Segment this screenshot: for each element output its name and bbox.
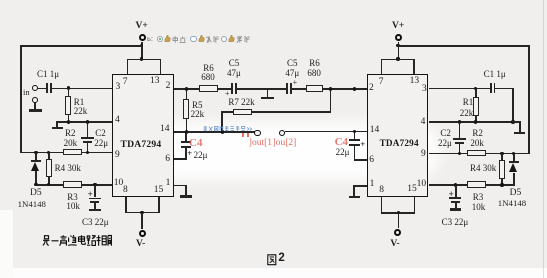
wire right rail vertical [528, 45, 530, 153]
watermark radio 3 [221, 36, 227, 42]
resistor R7 wire rise right [330, 89, 332, 113]
pin 8 number (right IC) [379, 186, 384, 196]
capacitor C4 (right) plate A [349, 139, 360, 141]
capacitor C3 (right) plate A [449, 197, 461, 199]
capacitor C4 (right) plate B [349, 144, 360, 146]
junction R4 bottom (left) [47, 183, 50, 186]
watermark thumb icon 1 [164, 35, 171, 43]
label 22k (left R5) [191, 110, 205, 119]
wire pin7-13 loop top (left IC) [127, 59, 162, 61]
resistor R1 (right) bottom stub [475, 116, 477, 123]
junction R5 top (right) [353, 87, 356, 90]
label out2 (red watermark) [273, 139, 297, 149]
junction R7 drop on out1 line [221, 130, 224, 133]
capacitor C2 (right) top stub [459, 122, 461, 138]
label 10k (right) [472, 203, 486, 212]
label R6 (right) [309, 59, 320, 68]
capacitor C4 (left) plus sign [187, 149, 192, 158]
capacitor C5 (left) plate A [231, 83, 233, 94]
label D5 (right) [510, 189, 522, 199]
ground (pin4 left) bar [52, 127, 63, 130]
wire out2 line to pin14 (right) [285, 131, 368, 133]
watermark radio selected (neutral) [157, 36, 163, 42]
V- terminal (right) [394, 229, 401, 236]
input terminal lower circle [32, 97, 38, 103]
wire C1 corner drop (right) [512, 88, 514, 123]
resistor R7 wire horizontal [221, 111, 331, 113]
ground (pin1 right) bar [349, 196, 360, 199]
capacitor C3 (right) top stub [455, 185, 457, 197]
ground (pin1 left) bar [180, 195, 191, 198]
ground (C3 left) bar [89, 209, 101, 212]
watermark rating row colon [147, 35, 153, 43]
capacitor C5 (right) plate B [290, 83, 292, 94]
pin 6 number (right IC) [369, 156, 374, 166]
pin 3 number (right IC) [422, 85, 427, 95]
resistor R2 (left) body [63, 149, 82, 155]
pin 8 number (left IC) [123, 186, 128, 196]
wire pin13 drop (right IC) [413, 59, 415, 75]
wire pin13 drop (left IC) [160, 59, 162, 75]
wire V+ right stub down [398, 42, 400, 60]
wire pin2 line (left) [174, 88, 232, 90]
wire pin7 drop (left IC) [127, 59, 129, 75]
label C5 (left) [229, 59, 240, 68]
junction V- (right) [397, 211, 400, 214]
capacitor C2 (left) plate A [81, 137, 94, 139]
label C2 (right) [440, 129, 451, 138]
pin 9 number (left IC) [115, 151, 120, 161]
scan artifact faint right edge line [543, 0, 544, 278]
label R1 (right) [463, 98, 474, 107]
ground (pin4 right) bar [514, 132, 526, 135]
label C5 (right) [287, 59, 298, 68]
resistor R6 (right) body [306, 85, 323, 92]
pin 2 number (left IC) [166, 82, 171, 92]
capacitor C2 (right) plate A [453, 138, 466, 140]
label 22u (left C4) [194, 151, 208, 160]
label TDA7294 (right) [380, 139, 419, 148]
junction pins7-13 loop left [140, 57, 143, 60]
background left white strip [0, 210, 13, 278]
label 680 (right) [307, 69, 321, 78]
capacitor C3 (left) plate B [90, 201, 99, 203]
resistor R3 (left) body [63, 181, 82, 187]
wire pin8 drop (left IC bottom loop) [125, 197, 127, 214]
junction C3 top (left) [93, 183, 96, 186]
pin 1 number (right IC) [370, 180, 375, 190]
resistor R4 (left) top stub [48, 153, 50, 160]
wire pin4 line (left) [56, 121, 112, 123]
label R3 (right) [473, 193, 484, 202]
wire C5 right to pin2 right [292, 88, 367, 90]
junction D5 top (left) [34, 151, 37, 154]
junction C2 top on pin4 line [86, 120, 89, 123]
pin 2 number (right IC) [369, 84, 374, 94]
resistor R1 (left) bottom stub [68, 115, 70, 122]
junction R1 bottom on pin4 line [67, 120, 70, 123]
resistor R5 (left) top stub [186, 89, 188, 100]
pin 15 number (left IC) [154, 186, 164, 196]
input terminal "in" upper circle [32, 85, 38, 91]
background center white wash [148, 122, 440, 180]
wire input to C1 [38, 88, 47, 90]
wire C4 to pin6 (left) [174, 158, 187, 160]
diode D5 (left) bottom stub [35, 171, 37, 185]
label C1 1u (right) [484, 70, 506, 79]
label R7 22k [228, 98, 254, 107]
capacitor C3 (left) plate A [89, 198, 101, 200]
pin 9 number (right IC) [421, 150, 426, 160]
wire pin7 drop (right IC) [381, 59, 383, 75]
resistor R7 body [233, 109, 252, 116]
wire bottom loop horizontal (right IC) [381, 212, 416, 214]
ground (pin4 right) drop [519, 121, 521, 132]
pin 14 number (right IC) [370, 126, 380, 136]
wire pin4 line (right) [429, 121, 514, 123]
op-amp U1 TDA7294 (left IC) [112, 74, 174, 197]
junction R4 top (right) [500, 152, 503, 155]
resistor R4 (left) bottom stub [48, 177, 50, 185]
wire C1 to pin3 (left) [52, 88, 112, 90]
capacitor C3 (left) plus sign [88, 190, 93, 199]
watermark thumb icon 2 [198, 35, 205, 43]
label C4 red watermark (right) [335, 137, 348, 148]
junction C3 top (right) [454, 183, 457, 186]
capacitor C5 (right) plus sign [293, 79, 298, 87]
capacitor C3 (left) bottom stub [94, 203, 96, 209]
label C4 red watermark (left) [189, 138, 202, 149]
diode D5 (right) triangle [509, 163, 517, 172]
note: other channel identical (CJK approx) [42, 235, 112, 247]
op-amp U2 TDA7294 (right IC) [367, 74, 428, 197]
junction R1 top (right) [474, 87, 477, 90]
watermark blue link text (CJK approx) [203, 126, 253, 132]
resistor R6 (left) body [199, 85, 218, 92]
ground (input) [29, 109, 42, 112]
V+ terminal (left) [139, 34, 146, 41]
label R6 (left) [203, 64, 214, 73]
capacitor C4 (left) bottom stub [185, 148, 187, 159]
pin 1 number (left IC) [166, 179, 171, 189]
label 20k (left) [64, 139, 78, 148]
junction input node R1 top (left) [67, 86, 70, 89]
watermark text bad (CJK approx) [236, 36, 250, 43]
label 22u (left) [94, 139, 108, 148]
label D5 (left) [30, 189, 42, 199]
label 20k (right) [470, 139, 484, 148]
ground (center) bar [261, 97, 274, 100]
capacitor C3 (left) top stub [94, 185, 96, 197]
V- terminal (left) [139, 230, 146, 237]
label R1 22k (left) [74, 98, 88, 116]
capacitor C4 (left) plate A [181, 141, 192, 143]
wire pin15 drop (left IC bottom loop) [158, 197, 160, 214]
label V- (left) [136, 240, 145, 250]
label in [23, 88, 30, 97]
wire top rail right [398, 45, 530, 47]
junction C2 top (right) [458, 120, 461, 123]
junction pins7-13 loop right [396, 57, 399, 60]
junction V- (left) [140, 211, 143, 214]
resistor R5 (left) body [183, 99, 189, 120]
resistor R3 (right) body [467, 181, 486, 187]
wire C1 right to corner [495, 88, 513, 90]
pin 4 number (left IC) [115, 116, 120, 126]
pin 10 number (right IC) [417, 180, 427, 190]
wire pin15 drop (right IC bottom loop) [414, 197, 416, 213]
capacitor C2 (right) plate B [455, 142, 464, 144]
capacitor C1 (right) plate B [494, 83, 496, 94]
label C1 1u (left) [37, 70, 59, 79]
wire center ground to C5 right [268, 88, 286, 90]
junction C2 bottom (right) [458, 152, 461, 155]
V+ label (right) [392, 22, 404, 32]
wire pin9 line (left) [20, 152, 112, 154]
resistor R4 (right) body [499, 160, 505, 179]
ground (pin4 left) stub [56, 121, 58, 127]
junction C4 top (left) [185, 130, 188, 133]
watermark text neutral (CJK approx) [172, 36, 186, 43]
diode D5 (left) top stub [35, 153, 37, 160]
capacitor C1 (left) plate B [50, 83, 52, 94]
pin 4 number (right IC) [421, 118, 426, 128]
watermark text good (CJK approx) [205, 36, 219, 43]
diode D5 (left) cathode bar [31, 160, 41, 162]
capacitor C5 (left) plus sign [225, 90, 230, 98]
wire out1 line from pin14 (left) [174, 131, 255, 133]
junction C1 corner (right) [511, 120, 514, 123]
resistor R1 (right) body [473, 97, 479, 117]
capacitor C2 (left) top stub [87, 122, 89, 137]
capacitor C3 (right) plate B [451, 201, 460, 203]
label 1N4148 (right) [498, 199, 526, 208]
junction R1 bottom (right) [474, 120, 477, 123]
junction R4 bottom (right) [500, 183, 503, 186]
label R2 (left) [65, 129, 76, 138]
pin 7 number (right IC) [379, 78, 384, 88]
capacitor C2 (right) bottom stub [459, 144, 461, 154]
background bottom white strip [0, 268, 547, 278]
pin 13 number (left IC) [150, 77, 160, 87]
label R2 (right) [472, 129, 483, 138]
capacitor C1 (left) plate A [46, 83, 48, 94]
label 47u (left) [227, 69, 241, 78]
resistor R5 (left) bottom stub [186, 119, 188, 133]
capacitor C3 (right) plus sign [449, 190, 454, 199]
label 47u (right) [285, 69, 299, 78]
capacitor C5 (left) plate B [235, 83, 237, 94]
label C3 22u (right) [442, 218, 469, 227]
junction V+ right rail [396, 44, 399, 47]
pin 15 number (right IC) [407, 185, 417, 195]
junction V+ left rail [140, 44, 143, 47]
label V- (right) [390, 240, 399, 250]
watermark radio 2 [190, 36, 196, 42]
wire left rail vertical [20, 45, 22, 153]
pin 14 number (left IC) [160, 125, 170, 135]
wire V+ left stub down [141, 42, 143, 60]
junction R4 top (left) [47, 151, 50, 154]
wire C5 to center ground (left) [237, 88, 268, 90]
pin 6 number (left IC) [165, 155, 170, 165]
capacitor C1 (right) plate A [490, 83, 492, 94]
wire pin3 line (right) [429, 88, 491, 90]
diode D5 (left) triangle [31, 162, 39, 171]
resistor R4 (right) bottom stub [501, 178, 503, 185]
capacitor C4 (right) plus sign [360, 140, 365, 149]
pin 7 number (left IC) [123, 78, 128, 88]
capacitor C3 (right) bottom stub [455, 203, 457, 209]
wire pin9 line (right) [429, 153, 530, 155]
V+ label (left) [136, 22, 148, 32]
terminal out1 [254, 130, 260, 136]
figure caption number 2 [278, 253, 284, 265]
wire top rail left [20, 45, 142, 47]
capacitor C4 (right) top stub [354, 132, 356, 140]
resistor R4 (right) top stub [501, 154, 503, 161]
wire bottom loop horizontal (left IC) [125, 212, 160, 214]
ground (pin1 left) drop [185, 185, 187, 196]
wire pin1 (left IC) to ground [174, 185, 187, 187]
ground (C3 right) bar [450, 208, 461, 211]
diode D5 (right) top stub [513, 154, 515, 162]
ground (center) stub [267, 89, 269, 97]
label R4 30k (left) [55, 164, 81, 173]
capacitor C4 (left) plate B [181, 146, 192, 148]
wire pin1 (right IC) to ground [354, 185, 367, 187]
resistor R7 wire drop left [221, 111, 223, 132]
label C2 (left) [95, 129, 106, 138]
watermark thumb icon 3 [228, 35, 235, 43]
capacitor C2 (left) plate B [83, 141, 92, 143]
capacitor C2 (left) bottom stub [87, 143, 89, 153]
figure caption 图2 (CJK approx + 2) [267, 254, 277, 266]
label 22k (right R1) [460, 109, 474, 118]
label 22u (right C2) [438, 139, 452, 148]
ground (pin4 right) stub [512, 121, 520, 123]
capacitor C4 (left) top stub [185, 133, 187, 142]
junction D5 top (right) [512, 152, 515, 155]
pin 13 number (right IC) [410, 77, 420, 87]
wire V- stub (left) [141, 213, 143, 229]
wire pin7-13 loop top (right IC) [381, 59, 415, 61]
junction R5 top (left) [185, 87, 188, 90]
junction C2 bottom (left) [86, 151, 89, 154]
wire pin10 line (right) [429, 184, 515, 186]
label C3 22u (left) [82, 218, 109, 227]
diode D5 (right) bottom stub [513, 173, 515, 186]
junction D5 bottom (left) [34, 183, 37, 186]
junction R7 corner (right pin2) [329, 87, 332, 90]
label 680 (left) [201, 73, 215, 82]
wire pin8 drop (right IC bottom loop) [381, 197, 383, 213]
label 1N4148 (left) [18, 200, 46, 209]
label 10k (left) [66, 202, 80, 211]
resistor R2 (right) body [467, 150, 486, 156]
pin 3 number (left IC) [116, 83, 121, 93]
label TDA7294 (left) [121, 140, 162, 150]
label R3 (left) [67, 193, 78, 202]
label R4 30k (right) [470, 164, 496, 173]
wire pin10 line (left) [35, 184, 111, 186]
ground (pin1 right) drop [353, 185, 355, 196]
capacitor C5 (right) plate A [286, 83, 288, 94]
red tick marks near out1 [242, 133, 244, 138]
label out1 (red watermark) [249, 139, 272, 149]
wire input ground stub [34, 103, 36, 110]
pin 10 number (left IC) [114, 179, 124, 189]
wire C4 to pin6 (right) [354, 159, 368, 161]
terminal out2 [279, 130, 285, 136]
capacitor C4 (right) bottom stub [354, 146, 356, 160]
junction R5 bottom (right) [353, 130, 356, 133]
resistor R1 (left) body [65, 96, 71, 116]
label R5 (left) [192, 101, 203, 110]
resistor R4 (left) body [46, 159, 52, 178]
resistor R1 (left) top stub [68, 88, 70, 96]
diode D5 (right) cathode bar [509, 161, 519, 163]
wire V- stub (right) [398, 213, 400, 228]
resistor R1 (right) top stub [475, 89, 477, 98]
V+ terminal (right) [395, 34, 402, 41]
label 22u (right C4) [336, 148, 350, 157]
